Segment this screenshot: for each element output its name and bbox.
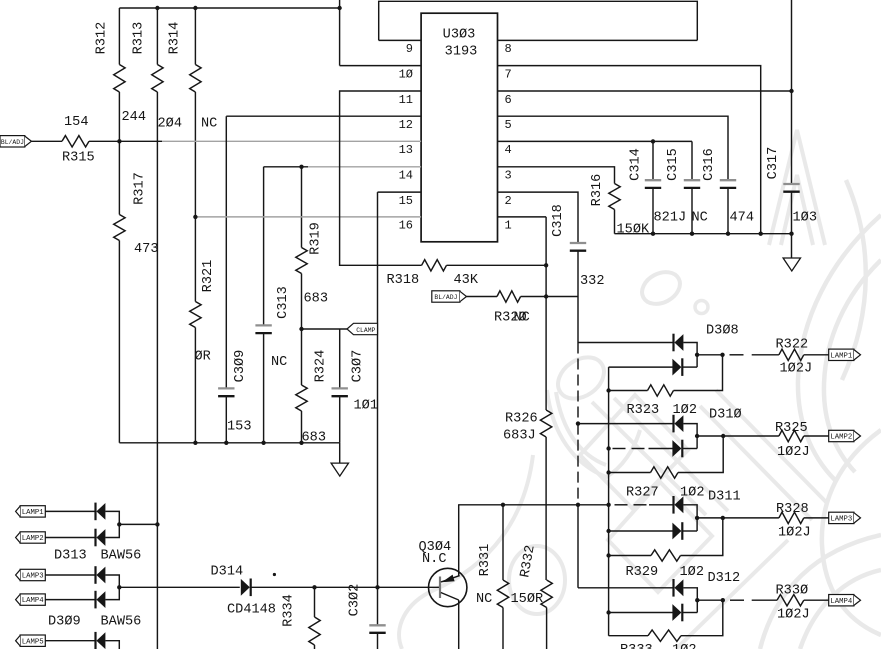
wire Q304 emitter up bbox=[458, 505, 460, 576]
label Q304 bbox=[419, 540, 452, 567]
capacitor C316 bbox=[720, 180, 736, 234]
svg-text:683: 683 bbox=[304, 292, 328, 307]
wire Q304 emitter row bbox=[458, 504, 608, 506]
wire pin 14 bbox=[264, 166, 422, 168]
wire pin 8 bbox=[498, 39, 698, 41]
diode D312 lower bbox=[672, 604, 682, 622]
svg-text:12: 12 bbox=[399, 118, 413, 132]
resistor R333 bbox=[648, 630, 681, 641]
capacitor C315 bbox=[684, 141, 700, 233]
junction bus/R324 bbox=[299, 441, 303, 445]
svg-text:R315: R315 bbox=[62, 151, 95, 166]
diode D313 upper bbox=[96, 503, 106, 521]
junction C315/bus bbox=[690, 232, 694, 236]
wire pin 10 bbox=[340, 0, 422, 66]
label C318 bbox=[551, 204, 566, 237]
wire R325 to LAMP2 bbox=[804, 435, 829, 437]
capacitor C309 bbox=[218, 116, 234, 443]
svg-text:474: 474 bbox=[730, 211, 754, 226]
svg-text:LAMP1: LAMP1 bbox=[22, 509, 45, 517]
resistor R332 bbox=[541, 580, 552, 649]
junction R314 top bbox=[193, 6, 197, 10]
wire LAMP3 bbox=[45, 574, 95, 576]
resistor R334 bbox=[309, 587, 320, 649]
svg-text:683J: 683J bbox=[503, 429, 536, 444]
wire D311 upper dashed bbox=[615, 504, 674, 506]
wire pin 5 bbox=[498, 116, 729, 180]
svg-text:NC: NC bbox=[692, 211, 708, 226]
value 150K (R316) bbox=[617, 223, 650, 238]
svg-text:R33Ø: R33Ø bbox=[776, 584, 809, 599]
value 102J (R328) bbox=[778, 526, 811, 541]
svg-text:2: 2 bbox=[505, 194, 512, 208]
junction railA/D310 bbox=[576, 421, 580, 425]
label CD4148 bbox=[227, 603, 276, 618]
wire D312 lower right bbox=[682, 612, 697, 614]
junction R334/base net bbox=[312, 585, 316, 589]
diode D309 upper bbox=[96, 566, 106, 584]
label D314 bbox=[211, 565, 244, 580]
wire D308 upper bbox=[578, 342, 674, 344]
svg-text:D31Ø: D31Ø bbox=[709, 408, 742, 423]
junction bus/R321 bbox=[193, 441, 197, 445]
wire D309 lower right bbox=[105, 587, 119, 599]
resistor R312 bbox=[114, 8, 125, 141]
label D310 bbox=[709, 408, 742, 423]
value 102 (R327) bbox=[680, 486, 704, 501]
svg-text:8: 8 bbox=[505, 42, 512, 56]
wire pin 11 down bbox=[340, 91, 422, 265]
wire R333 to railB bbox=[609, 635, 648, 637]
svg-text:5: 5 bbox=[505, 118, 512, 132]
svg-text:154: 154 bbox=[64, 115, 88, 130]
wire pin 9 bbox=[379, 39, 421, 41]
junction R320/rail1 bbox=[544, 294, 548, 298]
resistor R314 bbox=[190, 8, 201, 217]
svg-text:R312: R312 bbox=[95, 22, 110, 55]
junction D311 out bbox=[695, 516, 699, 520]
capacitor C314 bbox=[645, 141, 661, 233]
diode D310 upper bbox=[674, 415, 684, 433]
svg-text:R313: R313 bbox=[132, 22, 147, 55]
junction R319 top bbox=[299, 165, 303, 169]
svg-text:R328: R328 bbox=[776, 502, 809, 517]
wire R329 feedback bbox=[681, 518, 723, 556]
value 102 (R323) bbox=[673, 403, 697, 418]
resistor R330 bbox=[777, 595, 804, 606]
wire D310 lower dashed bbox=[613, 448, 674, 450]
svg-text:C314: C314 bbox=[629, 148, 644, 181]
label R314 bbox=[168, 22, 183, 55]
label R316 bbox=[590, 174, 605, 207]
svg-text:LAMP1: LAMP1 bbox=[830, 352, 853, 360]
value 332 (C318) bbox=[580, 274, 604, 289]
value 102J (R322) bbox=[780, 362, 813, 377]
svg-text:LAMP3: LAMP3 bbox=[830, 516, 852, 524]
value 204 (R313) bbox=[158, 117, 182, 132]
wire pin 16 bbox=[195, 216, 421, 218]
junction D312 fb bbox=[721, 598, 725, 602]
svg-text:NC: NC bbox=[201, 117, 217, 132]
svg-text:C315: C315 bbox=[666, 148, 681, 181]
wire D308 output bbox=[697, 354, 779, 356]
label R331 bbox=[478, 544, 493, 577]
capacitor C313 bbox=[255, 167, 271, 443]
value 0R (R321) bbox=[195, 350, 211, 365]
svg-text:D311: D311 bbox=[708, 490, 741, 505]
label C313 bbox=[276, 286, 291, 319]
label C302 bbox=[348, 584, 363, 617]
value 102J (R325) bbox=[777, 445, 810, 460]
label R328 bbox=[776, 502, 809, 517]
label C315 bbox=[666, 148, 681, 181]
wire D310 upper bbox=[578, 423, 674, 425]
label D308 bbox=[706, 324, 739, 339]
diode D311 lower bbox=[672, 522, 682, 540]
wire R315 to pin 13 bbox=[89, 140, 421, 142]
resistor R327 bbox=[651, 467, 679, 478]
svg-text:4: 4 bbox=[505, 143, 512, 157]
svg-text:R329: R329 bbox=[626, 565, 659, 580]
wire R328 to LAMP3 bbox=[804, 517, 829, 519]
svg-text:14: 14 bbox=[399, 169, 413, 183]
svg-text:CLAMP: CLAMP bbox=[356, 327, 375, 334]
wire pin 2 bbox=[498, 192, 579, 243]
value 154 (R315) bbox=[64, 115, 88, 130]
svg-text:R322: R322 bbox=[776, 338, 809, 353]
svg-text:C3Ø2: C3Ø2 bbox=[348, 584, 363, 617]
wire D313 lower right bbox=[105, 524, 119, 537]
wire Q304 collector down bbox=[458, 600, 460, 649]
resistor R316 bbox=[609, 184, 620, 234]
svg-text:C317: C317 bbox=[766, 147, 781, 180]
wire D313 output bbox=[119, 523, 157, 525]
junction R331 top bbox=[501, 503, 505, 507]
wire pin9 to pin8 top loop bbox=[379, 1, 698, 40]
wire R323 feedback bbox=[674, 355, 723, 391]
value 153 (C309) bbox=[227, 420, 251, 435]
wire rail below R326 bbox=[545, 437, 547, 580]
wire 150K bus bbox=[615, 233, 792, 235]
wire D311 upper right bbox=[683, 505, 697, 531]
value NC (R314) bbox=[201, 117, 217, 132]
value 101 (C307) bbox=[354, 399, 378, 414]
svg-text:11: 11 bbox=[399, 93, 413, 107]
wire rail B bbox=[608, 367, 610, 636]
svg-text:1Ø: 1Ø bbox=[399, 67, 413, 81]
resistor R326 bbox=[540, 410, 551, 437]
label R329 bbox=[626, 565, 659, 580]
svg-text:R321: R321 bbox=[201, 260, 216, 293]
svg-text:1Ø1: 1Ø1 bbox=[354, 399, 378, 414]
resistor R323 bbox=[648, 385, 674, 396]
junction emitter/railB bbox=[606, 503, 610, 507]
junction C317/bus bbox=[789, 232, 793, 236]
junction C314/pin4 bbox=[651, 139, 655, 143]
label C314 bbox=[629, 148, 644, 181]
svg-text:9: 9 bbox=[406, 42, 413, 56]
wire rail A solid bottom bbox=[577, 505, 579, 588]
label BAW56 (D313) bbox=[101, 549, 142, 564]
svg-text:R316: R316 bbox=[590, 174, 605, 207]
wire D315 right bbox=[105, 641, 119, 649]
svg-text:1Ø2J: 1Ø2J bbox=[780, 362, 813, 377]
wire LAMP4 bbox=[45, 599, 95, 601]
value 244 (R312) bbox=[122, 110, 146, 125]
svg-text:D312: D312 bbox=[708, 571, 741, 586]
wire rail A dashed lower bbox=[577, 424, 579, 505]
wire D312 lower bbox=[609, 612, 674, 614]
capacitor C302 bbox=[369, 625, 385, 649]
svg-text:D313: D313 bbox=[54, 549, 87, 564]
wire D312 output bbox=[697, 599, 777, 601]
svg-text:D3Ø8: D3Ø8 bbox=[706, 324, 739, 339]
svg-text:15: 15 bbox=[399, 194, 413, 208]
wire BL/ADJ to R315 bbox=[31, 140, 62, 142]
label D313 bbox=[54, 549, 87, 564]
junction bus/C309 bbox=[224, 441, 228, 445]
svg-text:R331: R331 bbox=[478, 544, 493, 577]
value NC (C313) bbox=[271, 355, 287, 370]
svg-text:NC: NC bbox=[476, 592, 492, 607]
connector CLAMP bbox=[347, 323, 378, 334]
svg-text:LAMP5: LAMP5 bbox=[22, 638, 44, 646]
wire pin 6 bbox=[498, 90, 792, 92]
resistor R329 bbox=[651, 550, 681, 561]
wire R318 to rail bbox=[447, 264, 547, 266]
svg-text:332: 332 bbox=[580, 274, 604, 289]
svg-text:821J: 821J bbox=[654, 211, 687, 226]
wire BLADJ2 to R320 bbox=[467, 296, 498, 298]
wire pin 7 bbox=[498, 66, 761, 234]
junction R318/rail bbox=[544, 263, 548, 267]
label R315 bbox=[62, 151, 95, 166]
svg-text:BL/ADJ: BL/ADJ bbox=[1, 139, 24, 146]
junction D308 fb bbox=[720, 353, 724, 357]
resistor R331 bbox=[497, 505, 508, 649]
wire top rail R312-R314 bbox=[119, 7, 339, 9]
svg-text:473: 473 bbox=[134, 242, 158, 257]
value 683 (R324) bbox=[302, 431, 326, 446]
wire D313 upper right bbox=[105, 511, 119, 524]
capacitor C307 bbox=[332, 329, 348, 443]
connector LAMP4 in bbox=[16, 594, 46, 605]
svg-text:7: 7 bbox=[505, 67, 512, 81]
label R319 bbox=[309, 222, 324, 255]
junction top rail/pin10 bbox=[337, 6, 341, 10]
label C317 bbox=[766, 147, 781, 180]
wire pin 4 bbox=[498, 140, 693, 142]
resistor R317 bbox=[114, 141, 125, 443]
label C316 bbox=[702, 148, 717, 181]
value 103 (C317) bbox=[793, 211, 817, 226]
label D312 bbox=[708, 571, 741, 586]
svg-text:15ØK: 15ØK bbox=[617, 223, 650, 238]
svg-text:LAMP2: LAMP2 bbox=[830, 434, 852, 442]
label R312 bbox=[95, 22, 110, 55]
svg-text:N.C: N.C bbox=[422, 552, 446, 567]
svg-text:6: 6 bbox=[505, 93, 512, 107]
diode D313 lower bbox=[96, 529, 106, 547]
label R330 bbox=[776, 584, 809, 599]
junction D313/R313 rail bbox=[155, 522, 159, 526]
connector LAMP4 out bbox=[829, 595, 861, 606]
resistor R319 bbox=[296, 167, 307, 329]
transistor Q304 body bbox=[429, 568, 467, 606]
resistor R322 bbox=[779, 349, 804, 360]
connector BL/ADJ (pin13 input) bbox=[0, 136, 31, 147]
svg-text:R324: R324 bbox=[314, 350, 329, 383]
stray dot bbox=[273, 573, 276, 576]
wire LAMP5 bbox=[45, 640, 95, 642]
watermark (decorative) bbox=[399, 130, 881, 649]
wire D312 upper bbox=[578, 587, 674, 589]
capacitor C317 bbox=[783, 0, 799, 234]
junction D311 lower/railB bbox=[606, 529, 610, 533]
junction R327/railB bbox=[606, 470, 610, 474]
wire R320 to railA bbox=[521, 296, 578, 298]
svg-text:1Ø2J: 1Ø2J bbox=[777, 445, 810, 460]
svg-text:CD4148: CD4148 bbox=[227, 603, 276, 618]
wire R327 to railB bbox=[609, 472, 651, 474]
junction R323/railB bbox=[606, 388, 610, 392]
label R322 bbox=[776, 338, 809, 353]
label D309 bbox=[48, 615, 81, 630]
wire pin 3 bbox=[498, 167, 615, 184]
resistor R313 bbox=[152, 8, 163, 649]
svg-text:1Ø2: 1Ø2 bbox=[673, 403, 697, 418]
junction bus/C313 bbox=[261, 441, 265, 445]
svg-text:R334: R334 bbox=[282, 594, 297, 627]
junction D308 out bbox=[695, 353, 699, 357]
label R313 bbox=[132, 22, 147, 55]
value 683J (R326) bbox=[503, 429, 536, 444]
diode D309 lower bbox=[96, 591, 106, 609]
wire pin 12 bbox=[226, 115, 421, 117]
wire D309 upper right bbox=[105, 575, 119, 587]
value 43K (R318) bbox=[454, 273, 479, 288]
wire D312 upper right bbox=[683, 588, 697, 613]
junction D310 out bbox=[695, 434, 699, 438]
value 821J (C314) bbox=[654, 211, 687, 226]
label R325 bbox=[775, 421, 808, 436]
junction R313 top bbox=[155, 6, 159, 10]
svg-text:1Ø3: 1Ø3 bbox=[793, 211, 817, 226]
svg-text:D314: D314 bbox=[211, 565, 244, 580]
svg-text:15ØR: 15ØR bbox=[511, 592, 544, 607]
pin numbers left bbox=[399, 42, 413, 233]
label R320 bbox=[494, 311, 527, 326]
svg-text:1Ø2: 1Ø2 bbox=[672, 643, 696, 649]
connector BL/ADJ (R320) bbox=[432, 291, 467, 302]
resistor R320 bbox=[497, 291, 521, 302]
junction D310 fb bbox=[721, 434, 725, 438]
wire D311 lower right bbox=[682, 530, 697, 532]
svg-text:13: 13 bbox=[399, 143, 413, 157]
junction D310 lower/railB bbox=[606, 446, 610, 450]
value 473 (R317) bbox=[134, 242, 158, 257]
label C309 bbox=[233, 350, 248, 383]
svg-text:D3Ø9: D3Ø9 bbox=[48, 615, 81, 630]
value 102J (R330) bbox=[777, 608, 810, 623]
svg-text:LAMP4: LAMP4 bbox=[830, 598, 853, 606]
svg-text:1Ø2J: 1Ø2J bbox=[777, 608, 810, 623]
svg-text:C3Ø7: C3Ø7 bbox=[351, 350, 366, 383]
label R334 bbox=[282, 594, 297, 627]
label R327 bbox=[626, 486, 659, 501]
junction C314/bus bbox=[651, 232, 655, 236]
label R333 bbox=[620, 643, 653, 649]
svg-text:U3Ø3: U3Ø3 bbox=[443, 28, 476, 43]
svg-text:R319: R319 bbox=[309, 222, 324, 255]
label C307 bbox=[351, 350, 366, 383]
label NC (R320) bbox=[514, 311, 530, 326]
wire R333 feedback bbox=[681, 600, 723, 636]
junction D311 fb bbox=[721, 516, 725, 520]
connector LAMP3 out bbox=[829, 512, 861, 523]
svg-text:R317: R317 bbox=[133, 172, 148, 205]
svg-text:R327: R327 bbox=[626, 486, 659, 501]
value 150R (R332) bbox=[511, 592, 544, 607]
svg-text:BAW56: BAW56 bbox=[101, 615, 142, 630]
wire D310 output bbox=[697, 435, 779, 437]
wire D314 to base bbox=[251, 586, 440, 588]
diode D315 upper bbox=[96, 632, 106, 649]
wire R323 to railB bbox=[609, 390, 648, 392]
svg-text:LAMP2: LAMP2 bbox=[22, 535, 44, 543]
resistor R328 bbox=[779, 512, 804, 523]
resistor R318 bbox=[422, 260, 447, 271]
resistor R325 bbox=[779, 430, 804, 441]
label R332 bbox=[518, 544, 538, 579]
svg-text:153: 153 bbox=[227, 420, 251, 435]
value 683 (R319) bbox=[304, 292, 328, 307]
wire CLAMP bbox=[302, 328, 348, 330]
label BAW56 (D309) bbox=[101, 615, 142, 630]
svg-text:C3Ø9: C3Ø9 bbox=[233, 350, 248, 383]
wire D308 upper right bbox=[683, 343, 697, 368]
label R323 bbox=[627, 403, 660, 418]
svg-text:3193: 3193 bbox=[445, 45, 478, 60]
svg-text:C316: C316 bbox=[702, 148, 717, 181]
svg-text:R325: R325 bbox=[775, 421, 808, 436]
ground (bus) bbox=[331, 443, 348, 476]
svg-text:1: 1 bbox=[505, 219, 512, 233]
junction D313 out bbox=[117, 522, 121, 526]
svg-text:1Ø2J: 1Ø2J bbox=[778, 526, 811, 541]
connector LAMP2 in bbox=[16, 532, 46, 543]
junction pin13/R312 rail bbox=[117, 139, 121, 143]
junction CLAMP/R319/R324 bbox=[299, 327, 303, 331]
value 102 (R333) bbox=[672, 643, 696, 649]
label D311 bbox=[708, 490, 741, 505]
svg-text:R318: R318 bbox=[387, 273, 420, 288]
svg-text:R333: R333 bbox=[620, 643, 653, 649]
wire D311 lower bbox=[609, 530, 674, 532]
junction pin7/bus bbox=[759, 232, 763, 236]
label R318 bbox=[387, 273, 420, 288]
svg-text:16: 16 bbox=[399, 219, 413, 233]
wire R327 feedback bbox=[678, 436, 723, 473]
label R321 bbox=[201, 260, 216, 293]
svg-text:R323: R323 bbox=[627, 403, 660, 418]
wire pin 1 to rail bbox=[498, 217, 547, 410]
wire R329 to railB bbox=[609, 555, 651, 557]
wire LAMP2 bbox=[45, 537, 95, 539]
junction pin16/R321 rail bbox=[193, 215, 197, 219]
svg-text:NC: NC bbox=[514, 311, 530, 326]
capacitor C318 bbox=[570, 243, 586, 343]
